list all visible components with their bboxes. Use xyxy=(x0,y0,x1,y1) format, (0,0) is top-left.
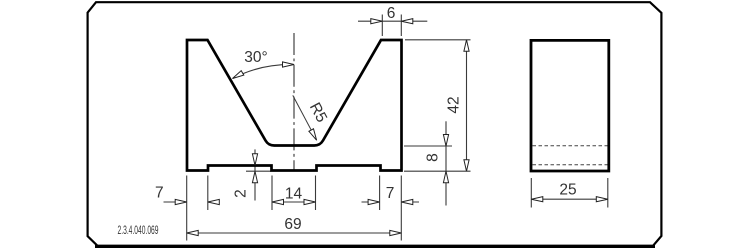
svg-text:7: 7 xyxy=(155,185,164,202)
svg-text:6: 6 xyxy=(387,5,396,22)
svg-text:25: 25 xyxy=(559,182,576,199)
svg-text:2: 2 xyxy=(233,189,250,198)
svg-text:30°: 30° xyxy=(244,49,267,66)
svg-text:14: 14 xyxy=(285,186,303,203)
svg-text:42: 42 xyxy=(446,96,463,113)
svg-text:8: 8 xyxy=(424,153,441,162)
svg-text:2.3.4.040.069: 2.3.4.040.069 xyxy=(118,225,159,237)
svg-text:7: 7 xyxy=(386,185,395,202)
svg-text:69: 69 xyxy=(284,216,301,233)
